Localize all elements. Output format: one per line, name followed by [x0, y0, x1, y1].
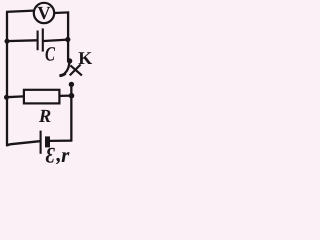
- svg-text:r: r: [61, 143, 70, 164]
- svg-text:C: C: [45, 43, 55, 65]
- svg-text:R: R: [38, 107, 51, 127]
- svg-text:V: V: [37, 4, 51, 24]
- svg-text:Ɛ: Ɛ: [46, 142, 55, 164]
- svg-text:K: K: [78, 48, 92, 68]
